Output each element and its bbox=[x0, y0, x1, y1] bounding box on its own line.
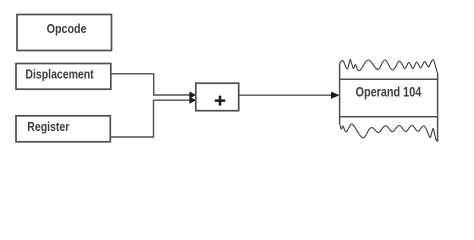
arrowhead Displacement wire at adder input bbox=[190, 92, 196, 98]
adder box bbox=[196, 83, 239, 111]
svg-text:Displacement: Displacement bbox=[25, 67, 94, 82]
memory cell torn top edge bbox=[340, 59, 438, 73]
box Opcode bbox=[17, 15, 112, 51]
memory cell torn bottom edge bbox=[340, 124, 438, 142]
arrowhead Register wire at adder input bbox=[190, 97, 196, 103]
wire adder to Operand memory cell bbox=[239, 94, 332, 96]
wire Displacement to adder bbox=[111, 74, 190, 95]
memory cell side edges bbox=[340, 64, 438, 142]
box Register bbox=[16, 116, 110, 142]
box Displacement bbox=[16, 64, 111, 90]
svg-text:Operand 104: Operand 104 bbox=[356, 85, 422, 100]
svg-text:Register: Register bbox=[27, 119, 69, 134]
svg-text:Opcode: Opcode bbox=[47, 21, 87, 36]
memory cell band lines bbox=[340, 79, 438, 117]
plus sign of adder bbox=[215, 96, 225, 106]
arrowhead at Operand memory cell input bbox=[331, 92, 339, 99]
wire Register to adder bbox=[111, 100, 191, 137]
